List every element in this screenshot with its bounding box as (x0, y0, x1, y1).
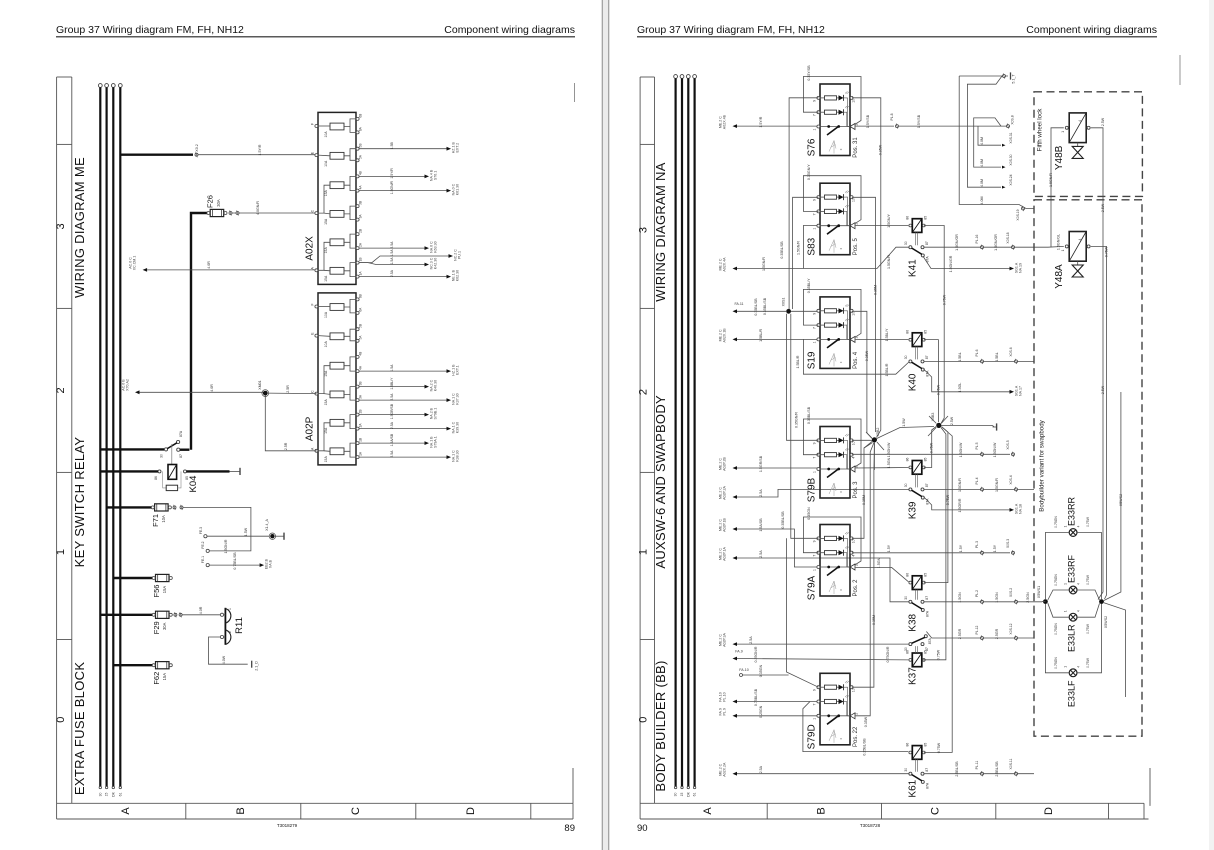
wire corner row to X0S.19 (1001, 205, 1034, 209)
svg-text:0.75W: 0.75W (936, 649, 940, 660)
svg-text:15: 15 (680, 793, 684, 797)
svg-text:87: 87 (925, 647, 929, 651)
wire pin9 chain 0.35BL/SB (789, 98, 818, 309)
node X5B3 (936, 423, 941, 428)
svg-text:WIRING DIAGRAM NA: WIRING DIAGRAM NA (653, 162, 668, 301)
svg-text:2.5A: 2.5A (759, 489, 763, 497)
svg-text:1.5Y/SB: 1.5Y/SB (866, 114, 870, 128)
arrow FA.11 to node X0S1 (733, 309, 738, 313)
svg-text:0.35M: 0.35M (874, 285, 878, 295)
svg-text:0.75W: 0.75W (1086, 574, 1090, 585)
svg-text:A02P.1B: A02P.1B (723, 518, 727, 532)
svg-text:X0S.4: X0S.4 (1009, 475, 1013, 484)
solenoid valve Y48A (1069, 232, 1086, 262)
svg-text:5B: 5B (359, 144, 363, 148)
wire corner vertical inner2 (974, 118, 1001, 167)
svg-text:10A: 10A (324, 311, 328, 318)
svg-text:1: 1 (638, 549, 650, 555)
svg-text:1.5BL/R: 1.5BL/R (796, 355, 800, 368)
switch S19 Pos.4 (820, 297, 850, 369)
svg-text:Group 37 Wiring diagram FM, FH: Group 37 Wiring diagram FM, FH, NH12 (637, 24, 825, 36)
svg-text:0: 0 (638, 717, 650, 723)
svg-text:7: 7 (813, 213, 817, 215)
svg-text:S79B: S79B (807, 477, 818, 502)
wire to Y48A pin1 1.5GN/GL (1048, 245, 1064, 248)
svg-text:F29: F29 (152, 621, 161, 634)
wire K37.85 return 0.75W (922, 428, 946, 660)
solenoid valve Y48B (1069, 113, 1086, 143)
svg-text:0.35BL/Y: 0.35BL/Y (807, 278, 811, 293)
svg-text:S79A.1: S79A.1 (434, 436, 438, 448)
wire 1.5GN/R feed K41.30 (803, 247, 909, 268)
svg-text:KEY SWITCH RELAY: KEY SWITCH RELAY (72, 437, 87, 568)
arrow AC.0 B X70.A2 (135, 390, 140, 394)
svg-text:PU.1: PU.1 (458, 251, 462, 259)
svg-text:PL.12: PL.12 (975, 625, 979, 634)
wire K39.87 to PL.4 X0S.4 (924, 488, 1034, 490)
svg-text:1: 1 (813, 128, 817, 130)
wire A02P 3B to NA.2 C K40.30 (360, 386, 425, 388)
svg-text:FE.3: FE.3 (199, 527, 203, 534)
lamp E33RR (1069, 529, 1077, 537)
svg-text:X1.4_A: X1.4_A (265, 519, 269, 531)
svg-text:PL.10: PL.10 (723, 692, 727, 701)
svg-text:2.5R: 2.5R (286, 385, 290, 393)
svg-text:5B: 5B (359, 324, 363, 328)
wire K41.87A to SG1.A NA.19 (923, 256, 1009, 268)
svg-text:9: 9 (813, 442, 817, 444)
svg-text:EXT.1: EXT.1 (456, 365, 460, 375)
svg-text:10: 10 (852, 441, 856, 445)
svg-text:1.5GN/R: 1.5GN/R (1049, 173, 1053, 187)
wire chain to S79D pin9 (787, 538, 819, 687)
svg-text:87: 87 (925, 355, 929, 359)
svg-text:1.5GN/R: 1.5GN/R (224, 539, 228, 553)
svg-text:0.75W: 0.75W (942, 294, 946, 305)
svg-text:X70.A2: X70.A2 (126, 379, 130, 391)
svg-text:2.5A: 2.5A (759, 765, 763, 773)
svg-text:PL.5: PL.5 (975, 442, 979, 449)
svg-text:K41: K41 (908, 259, 919, 277)
svg-text:X0S.6: X0S.6 (1009, 347, 1013, 356)
node XM01 (263, 391, 268, 396)
arrow ME.2 C A02P.1A to K38.30 (733, 556, 738, 560)
left page corner marks (572, 768, 574, 803)
svg-text:4.0GN/R: 4.0GN/R (256, 201, 260, 215)
svg-text:15A: 15A (324, 189, 328, 196)
svg-text:FA.9: FA.9 (735, 650, 742, 654)
wire K39.85 return 0.75W (924, 427, 936, 468)
svg-text:2.5A: 2.5A (390, 269, 394, 277)
wire R11 pin2 to ground 2.1_D (209, 637, 248, 664)
svg-text:9: 9 (813, 540, 817, 542)
wire feed K37.30 2.5A (737, 643, 909, 645)
svg-text:30: 30 (674, 793, 678, 797)
relay K37 (912, 653, 922, 667)
wire K61.87 to PL.11 X0S.11 (924, 773, 1034, 775)
svg-text:0.75W: 0.75W (1086, 516, 1090, 527)
svg-text:0.25BL/SB: 0.25BL/SB (863, 738, 867, 756)
svg-text:1: 1 (813, 471, 817, 473)
svg-text:NA.18: NA.18 (1019, 504, 1023, 514)
svg-text:A: A (702, 807, 714, 815)
svg-text:F62: F62 (152, 672, 161, 685)
wire S79D pin7 branch to K61.86 (803, 702, 908, 752)
svg-text:0.75BL/SB: 0.75BL/SB (754, 688, 758, 706)
svg-text:61: 61 (118, 793, 122, 797)
svg-text:0.35W: 0.35W (865, 350, 869, 361)
svg-text:1.5BL/Y: 1.5BL/Y (390, 377, 394, 390)
svg-text:2: 2 (855, 713, 859, 715)
svg-text:2.5GR: 2.5GR (958, 628, 962, 639)
svg-text:0.75GN: 0.75GN (1054, 574, 1058, 586)
wire S19 pin7 loop 0.35BL/Y (803, 289, 861, 337)
svg-text:C: C (350, 807, 362, 815)
arrow ME.2 C A02P.2A to K39.30 (733, 495, 738, 499)
lamp E33LR (1069, 613, 1077, 621)
svg-text:1: 1 (1064, 666, 1068, 668)
arrow PL.9 to S79D pin1 (733, 714, 738, 718)
svg-text:86: 86 (905, 216, 909, 220)
svg-text:1.5GN/R: 1.5GN/R (995, 478, 999, 492)
svg-text:A02X.4A: A02X.4A (723, 257, 727, 272)
svg-text:NA.17: NA.17 (1019, 386, 1023, 396)
svg-text:0.75W: 0.75W (946, 494, 950, 505)
svg-text:1.5B: 1.5B (390, 141, 394, 149)
svg-text:2.5A: 2.5A (749, 636, 753, 644)
svg-text:1: 1 (813, 569, 817, 571)
wire thick F26 feed from K04 (191, 213, 208, 450)
svg-text:10: 10 (852, 688, 856, 692)
svg-text:S79D: S79D (807, 724, 818, 749)
arrow PA.10 to S79D pin7 (733, 700, 738, 704)
svg-text:0.75GN: 0.75GN (1054, 623, 1058, 635)
switch S79A Pos.2 (820, 525, 850, 597)
relay K40 (912, 333, 922, 347)
relay K61 (912, 746, 922, 760)
svg-text:6B: 6B (359, 294, 363, 298)
wire F29 to R11 pin1 (174, 613, 177, 616)
svg-text:0.35BL/SB: 0.35BL/SB (754, 298, 758, 316)
svg-text:A: A (120, 807, 132, 815)
wire A02X 5B to HZ.1 B EXT.2 (360, 148, 447, 150)
wire S76 pin7 loop 0.35Y/SB (803, 77, 861, 125)
arrow ME.2 C A02X.2A to K61.30 (733, 772, 738, 776)
svg-text:15A: 15A (162, 673, 167, 681)
svg-text:K37: K37 (908, 667, 919, 685)
svg-text:PL.8: PL.8 (890, 113, 894, 120)
resistor K04 parallel (163, 471, 167, 488)
svg-text:30: 30 (904, 596, 908, 600)
wire A02X 4A to NA.0 C K61.30 (360, 190, 447, 192)
wire K41.85 return 0.75W (924, 226, 944, 424)
wire K37.87A to PL.12 X0S.12 (926, 632, 1034, 639)
wire K04 85 to ground (187, 470, 230, 472)
svg-text:2: 2 (228, 631, 232, 633)
svg-text:30: 30 (904, 768, 908, 772)
fuse F29 30A (100, 614, 153, 616)
fuse F26 30A (210, 209, 224, 216)
svg-text:30: 30 (904, 647, 908, 651)
svg-text:89: 89 (564, 823, 575, 834)
svg-text:K40: K40 (908, 373, 919, 391)
wire K40.87A to SG1.A NA.17 (924, 369, 1010, 392)
svg-text:Pos. 5: Pos. 5 (853, 238, 859, 256)
svg-text:87: 87 (925, 483, 929, 487)
svg-text:85: 85 (923, 216, 927, 220)
wire A02P 1A to NA.1 C K38.30 (360, 456, 447, 458)
svg-text:Y48A: Y48A (1054, 264, 1065, 289)
svg-text:FA.11: FA.11 (734, 302, 743, 306)
wire thick branch X0.2 (120, 153, 193, 155)
relay K38 (912, 576, 922, 590)
svg-text:15A: 15A (324, 247, 328, 254)
svg-text:A02X.2A: A02X.2A (723, 762, 727, 777)
svg-text:0.75W: 0.75W (1105, 246, 1109, 257)
svg-text:2.1_D: 2.1_D (255, 661, 259, 671)
svg-text:R11: R11 (234, 617, 245, 634)
svg-text:85: 85 (923, 573, 927, 577)
wire S83 pin10 0.35M down (852, 197, 876, 432)
svg-text:X0S.18: X0S.18 (1006, 232, 1010, 243)
svg-text:2.5GN: 2.5GN (1026, 592, 1030, 603)
svg-text:1.5GN/Y: 1.5GN/Y (887, 214, 891, 228)
svg-text:1: 1 (1061, 249, 1065, 251)
right page corner marks (1149, 768, 1151, 806)
bus bars 30 15 DK 61 right page (674, 75, 678, 79)
svg-text:1B: 1B (359, 257, 363, 261)
svg-text:F26: F26 (206, 195, 215, 208)
node X5WS1 (1043, 599, 1048, 604)
svg-text:86: 86 (905, 458, 909, 462)
svg-text:Pos. 2: Pos. 2 (853, 579, 859, 597)
svg-text:Component wiring diagrams: Component wiring diagrams (444, 24, 575, 36)
svg-text:1.5GN: 1.5GN (877, 557, 881, 568)
svg-text:10A: 10A (161, 515, 166, 523)
svg-text:15A: 15A (324, 427, 328, 434)
svg-text:2.5BL/SB: 2.5BL/SB (955, 761, 959, 777)
svg-text:Bodybuilder variant for swapbo: Bodybuilder variant for swapbody (1039, 419, 1046, 511)
wire A02P 3A to NA.1 C K37.30 (360, 399, 447, 401)
svg-text:A02P.2B: A02P.2B (723, 457, 727, 471)
svg-text:XC.CM.1: XC.CM.1 (133, 256, 137, 271)
svg-text:4: 4 (1078, 120, 1082, 122)
svg-text:K37.30: K37.30 (456, 393, 460, 404)
svg-text:WIRING DIAGRAM ME: WIRING DIAGRAM ME (72, 157, 87, 298)
svg-text:FA.10: FA.10 (739, 668, 748, 672)
svg-text:1.5A: 1.5A (390, 257, 394, 265)
svg-text:Pos. 22: Pos. 22 (853, 726, 859, 747)
svg-text:K62.30: K62.30 (456, 270, 460, 281)
svg-text:1.5BL/R: 1.5BL/R (885, 363, 889, 376)
svg-text:7: 7 (813, 114, 817, 116)
dashed box fifth wheel lock (1034, 92, 1142, 197)
svg-text:B: B (815, 807, 827, 814)
wire S83.2 to K41.86 (856, 225, 909, 227)
svg-text:1.5Y/R: 1.5Y/R (258, 144, 262, 155)
svg-text:X0S.30: X0S.30 (1009, 154, 1013, 165)
fuse F62 15A (113, 664, 153, 666)
wire K40.85 return 0.75W (924, 340, 939, 422)
wire A02P 4A to HZ.1 B EXT.1 (360, 370, 447, 372)
svg-text:0.35M: 0.35M (862, 495, 866, 505)
switch S79B Pos.3 (820, 427, 850, 499)
svg-text:4.0M: 4.0M (980, 197, 984, 205)
wire XM01 down to A02P pin A (265, 396, 316, 451)
svg-text:A02P: A02P (305, 416, 316, 441)
svg-text:1: 1 (228, 608, 232, 610)
right page frame strip (639, 77, 641, 819)
wire FE.3 to ground node X1.4_A (204, 535, 207, 538)
svg-text:D: D (465, 807, 477, 815)
svg-text:2.5A: 2.5A (759, 550, 763, 558)
svg-text:3B: 3B (359, 201, 363, 205)
svg-text:Group 37 Wiring diagram FM, FH: Group 37 Wiring diagram FM, FH, NH12 (56, 24, 244, 36)
fuse F56 15A (113, 577, 153, 579)
svg-text:0.75W: 0.75W (930, 442, 934, 453)
svg-text:D: D (1043, 807, 1055, 815)
wire K38.87 to lamps 2.5GN (924, 601, 1042, 603)
svg-text:1: 1 (813, 718, 817, 720)
wire thick bus to K04 86 (100, 470, 158, 472)
svg-text:86: 86 (905, 743, 909, 747)
wire A02P 2B to NA.2 B S79B.1 (360, 414, 425, 416)
svg-text:A02P.1A: A02P.1A (723, 547, 727, 561)
svg-text:1.5GR/SB: 1.5GR/SB (390, 403, 394, 419)
svg-text:15: 15 (105, 793, 109, 797)
svg-text:0.75W: 0.75W (937, 742, 941, 753)
svg-text:1.5GN/GR: 1.5GN/GR (994, 234, 998, 251)
svg-text:A02P.2A: A02P.2A (723, 486, 727, 500)
svg-text:1.5A/SB: 1.5A/SB (759, 518, 763, 532)
svg-text:K42.30: K42.30 (434, 258, 438, 269)
svg-text:FE.1: FE.1 (201, 556, 205, 563)
wire A02P 2A to NA.1 C K39.30 (360, 428, 447, 430)
svg-text:K38: K38 (908, 613, 919, 631)
wire up to Y48B pin1 1.5GN/R (1051, 128, 1064, 247)
svg-text:15A: 15A (324, 275, 328, 282)
svg-text:15A: 15A (324, 456, 328, 463)
svg-text:4: 4 (1077, 666, 1081, 668)
svg-text:1.5GN/R: 1.5GN/R (390, 180, 394, 194)
svg-text:S76: S76 (807, 138, 818, 156)
svg-text:X5WS2: X5WS2 (1104, 616, 1108, 628)
svg-text:1B: 1B (359, 438, 363, 442)
arrow ME.2 C A02P.1B to S79A (733, 527, 738, 531)
svg-text:S83: S83 (807, 237, 818, 255)
svg-text:E33RF: E33RF (1066, 554, 1076, 583)
svg-text:0.75W: 0.75W (936, 384, 940, 395)
svg-text:X0S.8: X0S.8 (1011, 115, 1015, 124)
svg-text:1.5BL/R: 1.5BL/R (759, 329, 763, 342)
wire K39.87A to SG1.A NA.18 (924, 497, 1010, 510)
svg-text:PL.4: PL.4 (975, 477, 979, 484)
svg-text:K39: K39 (908, 501, 919, 519)
arrow ME.2 C A02X.4A feed (733, 267, 738, 271)
svg-text:1.5GN: 1.5GN (995, 592, 999, 603)
svg-text:0.35GN/R: 0.35GN/R (795, 412, 799, 428)
svg-text:F56: F56 (152, 585, 161, 598)
relay K04 coil (171, 444, 173, 465)
svg-text:87: 87 (925, 596, 929, 600)
wire S79D pin2 up 0.35W (856, 443, 875, 716)
lamp cluster wiring right (1077, 533, 1102, 600)
wire K40.87 to PL.6 X0S.6 (924, 360, 1034, 362)
wire F26 to A02X pin C (229, 212, 232, 215)
svg-text:1.5GN/GR: 1.5GN/GR (949, 255, 953, 272)
svg-text:2B: 2B (359, 409, 363, 413)
svg-text:1.5BL: 1.5BL (958, 352, 962, 361)
wire S79B pin10 0.35M up (852, 440, 874, 441)
svg-text:4.0R: 4.0R (210, 384, 214, 392)
svg-text:87A: 87A (928, 637, 932, 644)
svg-text:1.5GN: 1.5GN (958, 592, 962, 603)
svg-text:7: 7 (813, 457, 817, 459)
svg-text:15A: 15A (324, 218, 328, 225)
switch S76 Pos.31 (820, 84, 850, 156)
svg-text:85: 85 (923, 458, 927, 462)
svg-text:86: 86 (154, 476, 158, 480)
svg-text:0.35GN/Y: 0.35GN/Y (807, 164, 811, 180)
wire S79A.4 output 1.5Y (852, 552, 1010, 554)
svg-text:X0S.5: X0S.5 (1006, 440, 1010, 449)
svg-text:1.5GN/R: 1.5GN/R (797, 241, 801, 255)
svg-text:B: B (235, 807, 247, 814)
resistor R11 (220, 613, 223, 616)
svg-text:2.5W: 2.5W (1101, 117, 1105, 126)
svg-text:3: 3 (55, 223, 67, 229)
relay K41 (912, 219, 922, 233)
svg-text:61: 61 (693, 793, 697, 797)
svg-text:2.5A: 2.5A (390, 450, 394, 458)
svg-text:4.0M: 4.0M (980, 179, 984, 187)
svg-text:0.75GN: 0.75GN (1054, 657, 1058, 669)
svg-text:PL.6: PL.6 (975, 349, 979, 356)
svg-text:1.5GR/R: 1.5GR/R (958, 498, 962, 512)
svg-text:0.35BL/SB: 0.35BL/SB (807, 406, 811, 424)
svg-text:3: 3 (638, 227, 650, 233)
svg-text:EXTRA FUSE BLOCK: EXTRA FUSE BLOCK (72, 662, 87, 795)
bus bars 30 15 DK 61 left page (98, 84, 102, 88)
svg-text:10A: 10A (324, 341, 328, 348)
svg-text:30: 30 (160, 454, 164, 458)
svg-text:10: 10 (852, 539, 856, 543)
svg-text:1.5GN/R: 1.5GN/R (887, 255, 891, 269)
svg-text:4: 4 (1078, 238, 1082, 240)
svg-text:K40.30: K40.30 (434, 380, 438, 391)
svg-text:1.5Y: 1.5Y (993, 544, 997, 552)
node X0S1 (786, 309, 791, 314)
wire F71 to FE.2 (173, 506, 176, 509)
svg-text:XM01: XM01 (258, 380, 262, 389)
node X5WS2 (1099, 599, 1104, 604)
svg-text:0.75BL/SB: 0.75BL/SB (233, 552, 237, 570)
svg-text:K61.30: K61.30 (456, 184, 460, 195)
svg-text:XA.B: XA.B (269, 559, 273, 568)
svg-text:E33LF: E33LF (1066, 680, 1076, 707)
arrow ME.2 C A02X.1B to S19 (733, 338, 738, 342)
svg-text:Fifth wheel lock: Fifth wheel lock (1037, 108, 1044, 152)
svg-text:2.5A: 2.5A (390, 421, 394, 429)
svg-text:4.0R: 4.0R (199, 606, 203, 614)
wire S76 pin10 0.35W down (852, 98, 881, 438)
wire corner vertical inner1 (967, 76, 1002, 187)
wire A02X 2A to NA.0 C K63.30 (360, 247, 425, 249)
wire S79A.2 to K38.86 (856, 567, 909, 581)
svg-text:EXT.2: EXT.2 (456, 143, 460, 153)
arrow FA.10 to chain (740, 674, 743, 677)
relay K39 (912, 461, 922, 475)
